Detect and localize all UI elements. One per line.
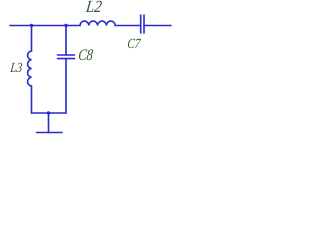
ground (37, 132, 63, 134)
wire L2 to C7 (115, 25, 141, 27)
label L3 (10, 62, 23, 76)
capacitor C7 (141, 15, 144, 33)
node junction middle (64, 24, 67, 27)
node junction left (30, 24, 33, 27)
wire C7 to right (144, 25, 171, 27)
wire left branch down (31, 26, 33, 52)
label C7 (127, 38, 141, 52)
node junction bottom (47, 111, 50, 114)
wire C8 to bottom (65, 59, 67, 113)
wire L3 to bottom (31, 86, 33, 113)
capacitor C8 (58, 55, 75, 59)
wire top-left horizontal (10, 25, 80, 27)
wire C8 branch down (65, 26, 67, 56)
wire bottom horizontal (32, 112, 67, 114)
inductor L3 (28, 51, 32, 86)
label C8 (77, 48, 93, 64)
wire ground stem (48, 113, 50, 133)
inductor L2 (80, 21, 115, 25)
label L2 (85, 0, 103, 15)
